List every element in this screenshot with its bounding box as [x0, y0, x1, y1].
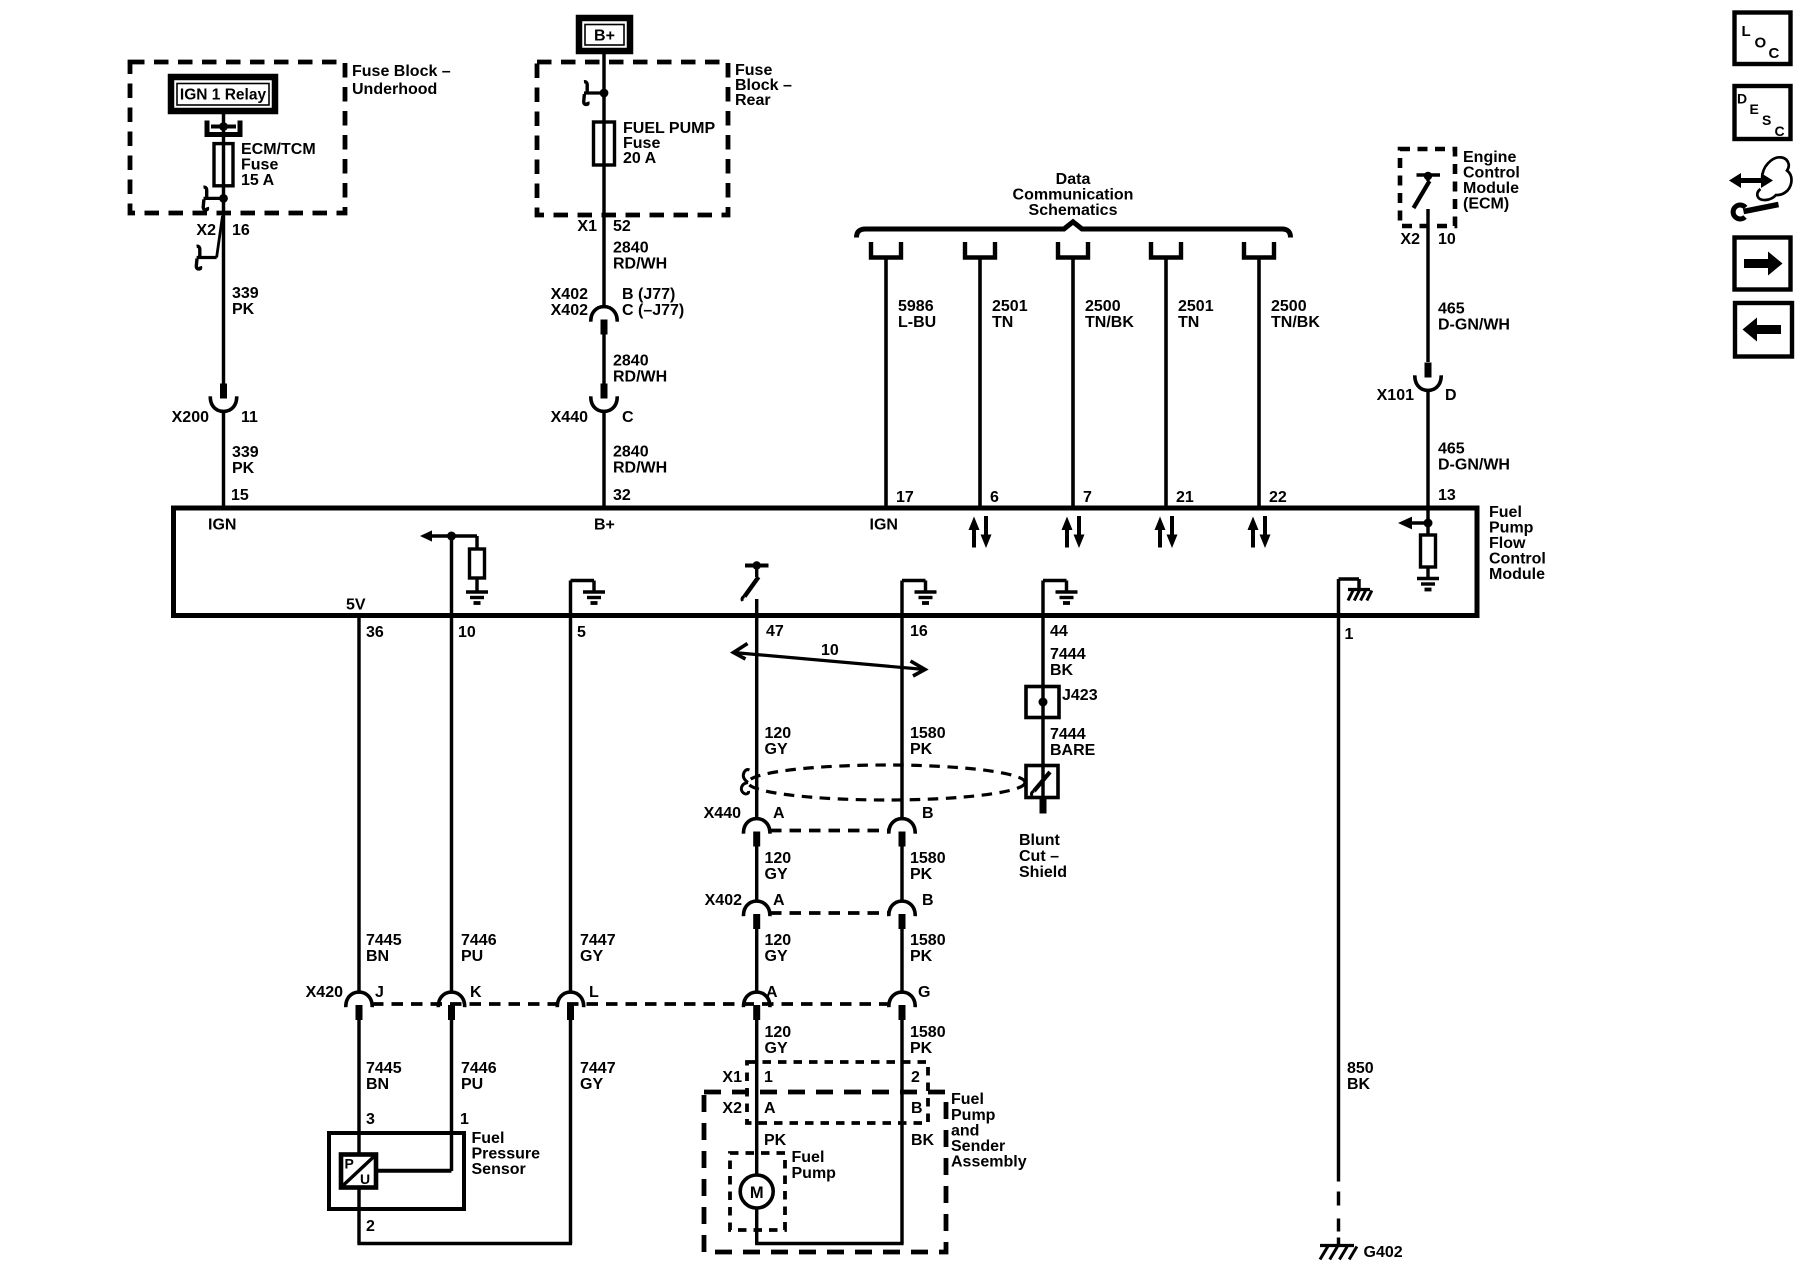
svg-text:7444: 7444 [1050, 646, 1086, 663]
wire 1580 PK seg1 [900, 616, 903, 818]
wire 120 GY seg1 [755, 616, 758, 818]
data terminal 1 [871, 242, 901, 258]
svg-text:339: 339 [232, 444, 259, 461]
svg-text:10: 10 [821, 642, 839, 659]
svg-text:17: 17 [896, 489, 914, 506]
svg-text:L: L [1742, 23, 1751, 40]
svg-text:Engine: Engine [1463, 149, 1516, 166]
wire to block edge [222, 198, 225, 213]
connector X1/X2 dashed strip [747, 1062, 928, 1123]
svg-text:Underhood: Underhood [352, 81, 437, 98]
svg-text:Blunt: Blunt [1019, 832, 1061, 849]
svg-text:15 A: 15 A [241, 172, 275, 189]
shield dashed ellipse [748, 765, 1025, 800]
svg-text:K: K [470, 984, 482, 1001]
icon right arrow box [1735, 238, 1791, 290]
svg-text:Fuel: Fuel [951, 1091, 984, 1108]
svg-text:2840: 2840 [613, 240, 649, 257]
wire 850 BK [1337, 616, 1340, 1182]
wire 339 PK upper [222, 213, 225, 385]
svg-text:X2: X2 [722, 1100, 742, 1117]
svg-text:Module: Module [1489, 566, 1545, 583]
crossover arrow 10 wires [734, 653, 926, 670]
wire 2501 TN [978, 258, 982, 509]
svg-text:D-GN/WH: D-GN/WH [1438, 457, 1510, 474]
wire 7447 GY upper [569, 616, 572, 992]
svg-text:850: 850 [1347, 1060, 1374, 1077]
svg-text:2500: 2500 [1271, 298, 1307, 315]
svg-text:GY: GY [765, 948, 788, 965]
svg-text:A: A [773, 892, 785, 909]
svg-text:X402: X402 [551, 286, 588, 303]
svg-text:B+: B+ [594, 28, 615, 45]
wire pump bottom return [755, 1242, 904, 1245]
connector X420 L [557, 992, 583, 1007]
svg-text:Shield: Shield [1019, 864, 1067, 881]
svg-text:RD/WH: RD/WH [613, 369, 667, 386]
svg-text:7444: 7444 [1050, 726, 1086, 743]
svg-text:X1: X1 [577, 218, 597, 235]
svg-text:120: 120 [765, 725, 792, 742]
svg-text:1580: 1580 [910, 932, 946, 949]
svg-text:1580: 1580 [910, 1024, 946, 1041]
connector X402 B [889, 901, 915, 916]
svg-text:J: J [375, 984, 384, 1001]
svg-text:2501: 2501 [1178, 298, 1214, 315]
svg-text:D: D [1445, 387, 1457, 404]
svg-text:Sensor: Sensor [472, 1161, 526, 1178]
wire 2500 TN/BK [1257, 258, 1261, 509]
svg-text:120: 120 [765, 1024, 792, 1041]
connector X402 A [743, 901, 769, 916]
svg-text:16: 16 [910, 623, 928, 640]
svg-text:BN: BN [366, 1076, 389, 1093]
ground G402 [1320, 1244, 1354, 1247]
svg-text:52: 52 [613, 218, 631, 235]
connector X420 A [743, 992, 769, 1007]
svg-text:B+: B+ [594, 517, 615, 534]
connector X420 K [438, 992, 464, 1007]
splice J423 [1026, 687, 1059, 718]
svg-text:L: L [589, 984, 599, 1001]
svg-text:2840: 2840 [613, 353, 649, 370]
svg-text:PK: PK [232, 460, 255, 477]
connector X440 dashed boundary [770, 829, 888, 833]
svg-text:2840: 2840 [613, 444, 649, 461]
pin 1 internal chassis ground [1337, 579, 1340, 616]
svg-text:TN/BK: TN/BK [1085, 314, 1134, 331]
bidirectional arrows pin 7 [1065, 526, 1069, 548]
connector X420 G [889, 992, 915, 1007]
connector X402 dashed boundary [770, 911, 888, 915]
svg-text:5: 5 [577, 624, 586, 641]
fuse block underhood dashed box [130, 62, 345, 213]
connector X402 B/C [591, 307, 617, 322]
ECM driver switch symbol [1417, 173, 1441, 177]
svg-text:(ECM): (ECM) [1463, 196, 1509, 213]
svg-text:Sender: Sender [951, 1138, 1005, 1155]
terminal hook B+ [584, 91, 604, 94]
bidirectional arrows pin 6 [972, 526, 976, 548]
junction dot [219, 194, 228, 203]
svg-text:22: 22 [1269, 489, 1287, 506]
svg-text:M: M [750, 1184, 764, 1202]
data terminal 2 [965, 242, 995, 258]
wire 2501 TN [1164, 258, 1168, 509]
svg-text:X200: X200 [172, 409, 209, 426]
svg-text:B (J77): B (J77) [622, 286, 675, 303]
icon left arrow box [1735, 303, 1792, 357]
svg-text:BK: BK [1050, 662, 1074, 679]
svg-text:6: 6 [990, 489, 999, 506]
svg-text:X1: X1 [722, 1069, 742, 1086]
pin 16 internal ground [900, 581, 903, 616]
svg-text:X2: X2 [1400, 231, 1420, 248]
wire 120 GY seg3 [755, 929, 758, 992]
svg-text:15: 15 [231, 487, 249, 504]
svg-text:7446: 7446 [461, 1060, 497, 1077]
wire 2500 TN/BK [1071, 258, 1075, 509]
wire 339 PK lower [222, 412, 225, 508]
svg-text:PK: PK [764, 1132, 787, 1149]
svg-text:X101: X101 [1377, 387, 1414, 404]
svg-text:RD/WH: RD/WH [613, 256, 667, 273]
brace [857, 222, 1291, 238]
svg-text:X420: X420 [306, 984, 343, 1001]
svg-text:Data: Data [1056, 171, 1091, 188]
svg-text:IGN: IGN [208, 517, 236, 534]
wire 1580 PK seg3 [900, 929, 903, 992]
svg-text:B: B [922, 892, 934, 909]
svg-text:TN: TN [992, 314, 1013, 331]
svg-text:Pump: Pump [951, 1107, 996, 1124]
svg-text:47: 47 [766, 623, 784, 640]
svg-text:X440: X440 [704, 805, 741, 822]
svg-text:1: 1 [1345, 626, 1354, 643]
svg-text:10: 10 [458, 624, 476, 641]
motor M fuel pump [740, 1175, 773, 1208]
svg-text:1580: 1580 [910, 725, 946, 742]
svg-text:J423: J423 [1062, 687, 1098, 704]
connector X440 B [889, 819, 915, 834]
connector X200 pin 11 [220, 384, 227, 399]
svg-text:11: 11 [241, 409, 258, 426]
svg-text:13: 13 [1438, 487, 1456, 504]
shield hook [743, 770, 749, 783]
svg-text:Cut –: Cut – [1019, 848, 1059, 865]
wire pin 10 inside box [450, 536, 453, 616]
svg-text:D: D [1737, 91, 1747, 107]
svg-text:2: 2 [366, 1218, 375, 1235]
svg-text:7447: 7447 [580, 932, 616, 949]
svg-text:BK: BK [1347, 1076, 1371, 1093]
svg-text:5V: 5V [346, 597, 366, 614]
wire sensor pin 3 inside [357, 1133, 360, 1155]
svg-text:7: 7 [1083, 489, 1092, 506]
svg-text:Communication: Communication [1013, 187, 1134, 204]
svg-text:21: 21 [1176, 489, 1194, 506]
svg-text:Flow: Flow [1489, 535, 1526, 552]
connector X440 C [601, 384, 608, 399]
svg-text:X402: X402 [705, 892, 742, 909]
svg-text:D-GN/WH: D-GN/WH [1438, 317, 1510, 334]
wire 850 BK tail [1337, 1238, 1340, 1248]
svg-text:Pump: Pump [1489, 520, 1534, 537]
fuse FUEL PUMP 20A [594, 122, 615, 165]
svg-text:2501: 2501 [992, 298, 1028, 315]
svg-text:Fuel: Fuel [1489, 504, 1522, 521]
svg-text:Assembly: Assembly [951, 1154, 1027, 1171]
svg-text:C: C [622, 409, 634, 426]
svg-text:S: S [1762, 112, 1771, 128]
svg-text:Module: Module [1463, 180, 1519, 197]
svg-text:C (–J77): C (–J77) [622, 302, 684, 319]
svg-text:7445: 7445 [366, 1060, 402, 1077]
connector X440 A [743, 819, 769, 834]
wire 1580 PK seg4 [900, 1020, 903, 1244]
wire sensor pin 2 [357, 1188, 360, 1244]
battery B+ feed box [579, 18, 630, 51]
svg-text:PU: PU [461, 1076, 483, 1093]
svg-text:36: 36 [366, 624, 384, 641]
svg-text:Pressure: Pressure [472, 1146, 541, 1163]
wire 2840 RD/WH middle [602, 334, 605, 385]
terminal hook [204, 197, 224, 200]
svg-text:PK: PK [910, 948, 933, 965]
svg-text:Fuel: Fuel [472, 1130, 505, 1147]
svg-text:A: A [764, 1100, 776, 1117]
svg-text:C: C [1769, 45, 1780, 62]
svg-text:L-BU: L-BU [898, 314, 936, 331]
svg-text:BN: BN [366, 948, 389, 965]
icon pointer/wrench [1729, 173, 1773, 188]
svg-text:3: 3 [366, 1111, 375, 1128]
svg-text:B: B [911, 1100, 923, 1117]
pin 13 internal: arrow, resistor, ground [1426, 508, 1429, 535]
svg-text:PK: PK [910, 1040, 933, 1057]
relay IGN 1 Relay box [171, 77, 275, 111]
svg-text:GY: GY [580, 948, 603, 965]
svg-text:TN/BK: TN/BK [1271, 314, 1320, 331]
Fuel Pump Flow Control Module box [174, 508, 1478, 616]
svg-text:7446: 7446 [461, 932, 497, 949]
svg-text:Fuse: Fuse [241, 157, 278, 174]
fuel pressure sensor box [329, 1133, 464, 1209]
svg-text:16: 16 [232, 222, 250, 239]
wire 7447 GY lower [569, 1020, 572, 1244]
wire 7444 BARE [1041, 718, 1044, 766]
svg-text:120: 120 [765, 850, 792, 867]
pin 44 internal ground [1041, 581, 1044, 616]
svg-text:339: 339 [232, 285, 259, 302]
fuel pump inner dashed box [730, 1153, 785, 1230]
wire 7446 PU upper [450, 616, 453, 992]
svg-text:Control: Control [1463, 165, 1520, 182]
wire 7445 BN upper [357, 616, 360, 992]
svg-text:44: 44 [1050, 623, 1068, 640]
svg-text:2500: 2500 [1085, 298, 1121, 315]
fuse block rear dashed box [537, 62, 728, 215]
wire 850 BK dashed seg2 [1337, 1219, 1340, 1232]
connector X420 J [346, 992, 372, 1007]
wire 2840 RD/WH upper [602, 165, 605, 306]
svg-text:IGN 1 Relay: IGN 1 Relay [180, 87, 267, 104]
blunt cut shield box [1026, 766, 1058, 798]
wire relay to fuse [222, 114, 225, 144]
svg-text:Control: Control [1489, 551, 1546, 568]
svg-text:ECM/TCM: ECM/TCM [241, 141, 316, 158]
svg-text:X2: X2 [196, 222, 216, 239]
svg-text:A: A [773, 805, 785, 822]
wire 120 GY seg4 to pump [755, 1020, 758, 1176]
svg-text:E: E [1750, 101, 1759, 117]
svg-text:GY: GY [580, 1076, 603, 1093]
svg-text:Schematics: Schematics [1029, 202, 1118, 219]
wire 7444 BK [1041, 616, 1044, 687]
bidirectional arrows pin 22 [1251, 526, 1255, 548]
svg-text:1580: 1580 [910, 850, 946, 867]
bidirectional arrows pin 21 [1158, 526, 1162, 548]
pin 5 internal ground [569, 581, 572, 616]
ECM dashed box [1400, 149, 1455, 226]
svg-text:PU: PU [461, 948, 483, 965]
icon LOC box [1735, 13, 1791, 65]
svg-text:10: 10 [1438, 231, 1456, 248]
svg-text:Fuel: Fuel [792, 1149, 825, 1166]
wire 7445 BN lower [357, 1020, 360, 1134]
svg-text:7447: 7447 [580, 1060, 616, 1077]
svg-text:TN: TN [1178, 314, 1199, 331]
svg-text:G402: G402 [1364, 1244, 1403, 1261]
svg-text:PK: PK [910, 741, 933, 758]
sensor P/U element [341, 1155, 376, 1188]
svg-text:G: G [918, 984, 930, 1001]
relay contact symbol [207, 121, 240, 135]
svg-text:PK: PK [232, 301, 255, 318]
wire B+ to fuse [602, 51, 605, 122]
blunt cut wire stub [1040, 798, 1047, 814]
svg-text:2: 2 [911, 1069, 920, 1086]
svg-text:7445: 7445 [366, 932, 402, 949]
svg-text:IGN: IGN [870, 517, 898, 534]
data terminal 3 [1058, 242, 1088, 258]
wire 2840 RD/WH lower [602, 412, 605, 508]
svg-text:BARE: BARE [1050, 742, 1096, 759]
svg-text:1: 1 [764, 1069, 773, 1086]
wire 1580 PK seg2 [900, 846, 903, 900]
data terminal 5 [1244, 242, 1274, 258]
svg-text:GY: GY [765, 1040, 788, 1057]
wire sensor return bottom [357, 1242, 572, 1245]
wire pump to return [755, 1208, 758, 1244]
svg-text:U: U [360, 1171, 370, 1187]
wire 465 D-GN/WH lower [1426, 391, 1429, 508]
wire 120 GY seg2 [755, 846, 758, 900]
connector slash [217, 216, 223, 258]
svg-text:Fuse Block –: Fuse Block – [352, 63, 451, 80]
svg-text:X402: X402 [551, 302, 588, 319]
svg-text:A: A [766, 984, 778, 1001]
svg-text:1: 1 [460, 1111, 469, 1128]
svg-text:GY: GY [765, 741, 788, 758]
wire 5986 L-BU [884, 258, 888, 509]
svg-text:BK: BK [911, 1132, 935, 1149]
wire sensor pin 1 inside [378, 1169, 452, 1173]
svg-text:465: 465 [1438, 301, 1465, 318]
svg-text:RD/WH: RD/WH [613, 460, 667, 477]
wire 850 BK dashed seg1 [1337, 1192, 1340, 1206]
wire 7446 PU lower [450, 1020, 453, 1172]
svg-text:O: O [1755, 35, 1767, 52]
svg-text:X440: X440 [551, 409, 588, 426]
svg-text:B: B [922, 805, 934, 822]
svg-text:C: C [1775, 123, 1785, 139]
icon DESC box [1735, 86, 1791, 139]
pin 10 internal: arrow, resistor, ground [428, 534, 477, 537]
svg-text:32: 32 [613, 487, 631, 504]
svg-text:465: 465 [1438, 441, 1465, 458]
svg-text:Pump: Pump [792, 1165, 837, 1182]
svg-text:Rear: Rear [735, 92, 771, 109]
svg-text:P: P [345, 1156, 354, 1172]
connector X420 dashed boundary [372, 1002, 888, 1006]
svg-text:120: 120 [765, 932, 792, 949]
junction dot [600, 89, 609, 98]
wire 465 D-GN/WH upper [1426, 209, 1429, 362]
svg-text:PK: PK [910, 866, 933, 883]
pin 47 internal switch [753, 561, 761, 569]
svg-text:and: and [951, 1123, 979, 1140]
connector X101 D [1425, 363, 1432, 378]
svg-text:20 A: 20 A [623, 150, 657, 167]
fuel pump and sender assembly dashed box [704, 1092, 946, 1252]
svg-text:5986: 5986 [898, 298, 934, 315]
fuse ECM/TCM 15A [214, 144, 233, 186]
terminal hook 2 [197, 256, 217, 259]
svg-text:GY: GY [765, 866, 788, 883]
data terminal 4 [1151, 242, 1181, 258]
